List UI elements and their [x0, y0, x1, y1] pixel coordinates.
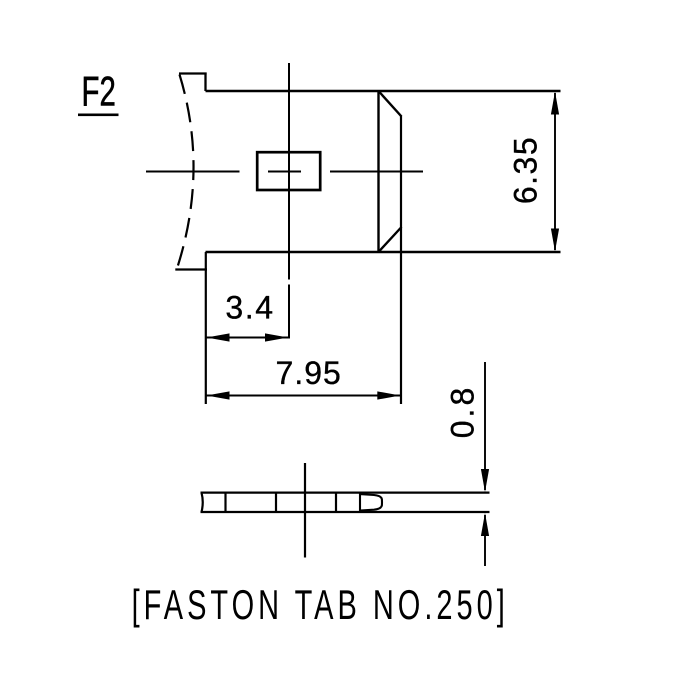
dimension line 3.4 — [207, 337, 289, 339]
dimension line 0.8 lower — [484, 515, 486, 566]
dimension line 7.95 — [207, 395, 401, 397]
svg-text:0.8: 0.8 — [445, 385, 481, 438]
arrowhead 3.4 left — [207, 333, 230, 341]
chamfer top diagonal — [379, 91, 402, 117]
break bottom horizontal — [175, 268, 207, 270]
side view division line 1 — [224, 493, 226, 512]
side view left break edge — [202, 493, 203, 512]
label F2 — [78, 67, 119, 116]
left extension line (break step + extension) — [205, 252, 207, 404]
svg-text:3.4: 3.4 — [225, 290, 274, 326]
arrowhead 7.95 right — [377, 391, 400, 399]
chamfer shoulder line — [377, 90, 379, 253]
side view centerline — [304, 463, 306, 558]
dimension line 6.35 — [554, 93, 556, 250]
svg-text:6.35: 6.35 — [508, 136, 544, 204]
svg-text:7.95: 7.95 — [276, 355, 342, 391]
vertical centerline top view — [288, 63, 290, 339]
side view division line 2 — [275, 493, 277, 512]
side view rounded tip — [360, 494, 382, 510]
arrowhead 0.8 down — [481, 469, 489, 492]
side view division line 3 — [335, 493, 337, 512]
hole rectangle — [257, 152, 320, 190]
arrowhead 6.35 down — [551, 229, 559, 252]
arrowhead 3.4 right — [265, 333, 288, 341]
horizontal centerline top view — [146, 171, 423, 173]
arrowhead 7.95 left — [207, 391, 230, 399]
side view top line with extension — [201, 492, 490, 494]
side view bottom line with extension — [201, 511, 490, 513]
svg-text:[FASTON TAB NO.250]: [FASTON TAB NO.250] — [132, 580, 509, 628]
arrowhead 6.35 up — [551, 92, 559, 115]
chamfer bottom diagonal — [379, 227, 402, 252]
break top step vertical — [204, 73, 206, 92]
dimension line 0.8 upper — [484, 362, 486, 490]
tab right edge with extension line down — [400, 116, 402, 404]
tab bottom edge with extension line — [206, 251, 561, 253]
break top horizontal — [179, 72, 207, 74]
svg-text:F2: F2 — [82, 67, 116, 115]
break dashed arc — [177, 75, 194, 269]
tab top edge with extension line — [206, 90, 561, 92]
arrowhead 0.8 up — [481, 513, 489, 536]
